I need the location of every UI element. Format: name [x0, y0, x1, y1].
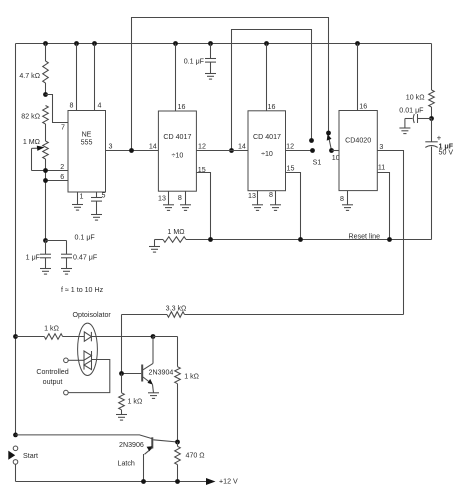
wire diac right to lower terminal	[68, 360, 110, 393]
pin 3 wire 555 output	[106, 150, 159, 152]
wire pot to pins 2/6	[45, 159, 47, 241]
svg-text:3: 3	[109, 142, 113, 150]
svg-text:6: 6	[60, 173, 64, 181]
resistor 1 k-ohm opto feed	[13, 334, 18, 339]
terminal controlled output upper	[64, 358, 69, 363]
resistor 4.7 k-ohm	[45, 44, 47, 62]
pin 15 wire U3 reset	[286, 173, 301, 240]
svg-text:1 MΩ: 1 MΩ	[167, 228, 184, 236]
capacitor 1 uF 50 V electrolytic	[431, 119, 433, 142]
node Q2 collector junction	[175, 440, 180, 445]
svg-text:Optoisolator: Optoisolator	[73, 311, 112, 319]
node junction 10k/caps	[429, 116, 434, 121]
svg-text:14: 14	[238, 142, 246, 150]
svg-text:12: 12	[286, 142, 294, 150]
pin 8 ground U3	[275, 191, 277, 205]
pin 16 wire U4	[357, 44, 359, 111]
capacitor C 0.47 uF	[46, 240, 67, 242]
svg-text:470 Ω: 470 Ω	[186, 452, 205, 460]
svg-text:3: 3	[379, 143, 383, 151]
svg-text:÷10: ÷10	[172, 152, 184, 160]
resistor 470 ohm	[177, 442, 179, 446]
svg-text:1 kΩ: 1 kΩ	[128, 398, 143, 406]
svg-text:3.3 kΩ: 3.3 kΩ	[166, 304, 187, 312]
svg-text:555: 555	[81, 139, 93, 147]
svg-text:Controlled: Controlled	[36, 368, 68, 376]
node S1 pivot pin 10	[329, 148, 334, 153]
svg-text:16: 16	[359, 102, 367, 110]
node junction 4.7k/82k	[43, 92, 48, 97]
svg-text:16: 16	[178, 103, 186, 111]
resistor 1 k-ohm base pulldown	[121, 374, 123, 393]
pot wiper arrow	[32, 147, 38, 149]
resistor 1 M-ohm reset pulldown	[154, 240, 156, 247]
node S1 contact B	[309, 138, 314, 143]
svg-text:10 kΩ: 10 kΩ	[406, 93, 425, 101]
svg-text:+12 V: +12 V	[219, 477, 238, 485]
svg-text:f ≈ 1 to 10 Hz: f ≈ 1 to 10 Hz	[61, 286, 104, 294]
svg-text:1 μF: 1 μF	[26, 253, 41, 261]
svg-text:1 kΩ: 1 kΩ	[44, 325, 59, 333]
resistor 10 k-ohm	[431, 44, 433, 91]
potentiometer 1 M-ohm	[45, 124, 47, 141]
wire diac left to output terminal	[68, 359, 84, 361]
counter U2 CD 4017 box	[158, 111, 196, 191]
svg-text:2N3906: 2N3906	[119, 441, 144, 449]
svg-text:4: 4	[98, 102, 102, 110]
svg-text:÷10: ÷10	[261, 150, 273, 158]
counter U4 CD4020 box	[339, 111, 377, 191]
wire start to Q2 base	[16, 435, 153, 439]
switch S1 lever	[329, 140, 331, 151]
switch Start pushbutton	[13, 446, 18, 451]
svg-text:0.1 μF: 0.1 μF	[184, 57, 205, 65]
capacitor pin 5 0.1 uF	[96, 192, 98, 198]
svg-text:0.01 μF: 0.01 μF	[399, 107, 424, 115]
counter U3 CD 4017 box	[248, 111, 286, 191]
svg-text:4.7 kΩ: 4.7 kΩ	[19, 72, 40, 80]
wire outer loop 555 output to S1	[132, 18, 329, 151]
svg-text:Start: Start	[23, 452, 38, 460]
svg-text:1 MΩ: 1 MΩ	[23, 138, 40, 146]
svg-text:8: 8	[340, 195, 344, 203]
svg-text:output: output	[43, 378, 63, 386]
svg-text:NE: NE	[82, 131, 92, 139]
svg-text:16: 16	[268, 103, 276, 111]
svg-text:CD 4017: CD 4017	[163, 133, 191, 141]
pin 12 wire U3 to S1	[286, 150, 313, 152]
pin 8 ground U4	[347, 191, 349, 205]
capacitor C 1 uF	[45, 241, 47, 255]
pin 8 wire	[76, 44, 78, 111]
pin 8 ground U2	[185, 191, 187, 205]
pin 15 wire U2 reset	[196, 173, 210, 240]
wire pin 6	[46, 180, 69, 182]
svg-text:2: 2	[60, 163, 64, 171]
pin 16 wire U3	[266, 44, 268, 111]
wire 3.3k to base node	[121, 315, 123, 374]
node base junction Q1	[119, 371, 124, 376]
wire reset line	[186, 239, 432, 241]
svg-text:1 kΩ: 1 kΩ	[184, 373, 199, 381]
node start junction	[13, 433, 18, 438]
pin 11 wire U4 reset	[377, 173, 389, 240]
svg-text:CD4020: CD4020	[345, 137, 371, 145]
svg-text:50 V: 50 V	[439, 149, 454, 157]
wire left rail	[15, 44, 17, 435]
resistor 82 k-ohm	[43, 106, 49, 125]
transistor Q2 2N3906	[151, 437, 153, 448]
svg-text:8: 8	[70, 101, 74, 109]
wire to pin 7	[46, 95, 69, 123]
pin 13 ground U2	[168, 191, 170, 205]
capacitor 0.1 uF decoupling	[210, 44, 212, 59]
pin 16 wire U2	[175, 44, 177, 112]
node junction timing caps	[43, 238, 48, 243]
svg-text:12: 12	[198, 143, 206, 151]
svg-text:5: 5	[102, 191, 106, 199]
wire pin 2	[32, 170, 69, 172]
svg-text:0.1 μF: 0.1 μF	[75, 234, 96, 242]
wire +V top rail	[16, 43, 432, 45]
resistor 3.3 k-ohm	[185, 314, 404, 316]
node S1 contact A	[326, 131, 331, 136]
wire +12V bottom rail	[16, 481, 207, 483]
optoisolator photo-diac	[84, 351, 92, 360]
svg-text:8: 8	[269, 191, 273, 199]
svg-text:15: 15	[287, 165, 295, 173]
pin 3 wire U4 output	[377, 151, 403, 315]
svg-text:0.47 μF: 0.47 μF	[73, 253, 98, 261]
svg-text:15: 15	[198, 166, 206, 174]
svg-text:2N3904: 2N3904	[149, 369, 174, 377]
svg-text:+: +	[437, 133, 442, 142]
op-amp U1 NE 555 timer box	[68, 111, 106, 193]
wire collector node to 1k right	[153, 336, 178, 338]
optoisolator U5 ellipse	[78, 323, 98, 375]
terminal controlled output lower	[64, 390, 69, 395]
svg-text:Latch: Latch	[118, 460, 135, 468]
wire left rail lower	[15, 464, 17, 481]
capacitor 0.01 uF	[417, 114, 419, 123]
pin 12 wire U2 to U3	[196, 150, 248, 152]
node opto cathode / collector junction	[151, 334, 156, 339]
svg-text:82 kΩ: 82 kΩ	[21, 113, 40, 121]
pin 1 ground	[77, 192, 79, 205]
svg-text:8: 8	[178, 194, 182, 202]
svg-text:11: 11	[378, 164, 385, 172]
svg-text:S1: S1	[313, 159, 322, 167]
pin 13 ground U3	[257, 191, 259, 205]
resistor 1 k-ohm collector to latch	[177, 337, 179, 367]
svg-text:14: 14	[149, 143, 157, 151]
svg-text:Reset line: Reset line	[349, 233, 381, 241]
svg-text:13: 13	[158, 194, 166, 202]
svg-text:13: 13	[248, 192, 256, 200]
svg-text:1: 1	[80, 193, 84, 201]
svg-text:CD 4017: CD 4017	[253, 133, 281, 141]
pin 4 wire	[94, 44, 96, 111]
svg-text:7: 7	[61, 124, 65, 132]
optoisolator LED	[84, 332, 91, 341]
node S1 contact C	[310, 148, 315, 153]
node junction dots on top rail	[43, 41, 48, 46]
wire inner loop div10 output to S1	[232, 30, 312, 151]
arrow +12 V supply	[206, 478, 216, 485]
transistor Q1 2N3904	[152, 337, 154, 364]
